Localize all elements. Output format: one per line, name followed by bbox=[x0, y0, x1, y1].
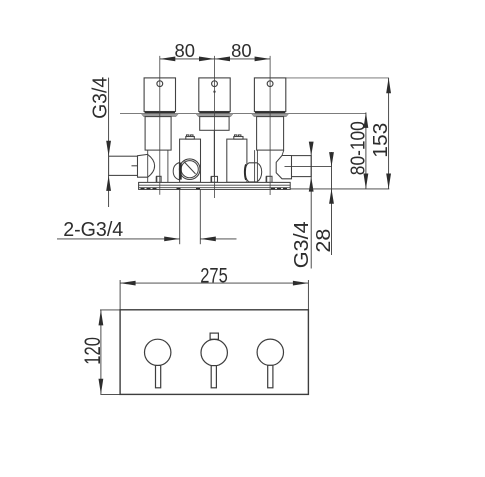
dimension 120 bbox=[100, 310, 120, 395]
cartridge 3 lower body bbox=[257, 117, 284, 151]
handle 1 bbox=[145, 339, 171, 388]
plate tick marks bbox=[141, 188, 288, 190]
dimension G3/4 right bbox=[310, 143, 312, 269]
dimension 2-G3/4 bbox=[57, 238, 237, 240]
mounting plate bbox=[139, 182, 291, 189]
front plate rectangle bbox=[120, 310, 308, 395]
left valve body bbox=[138, 154, 155, 177]
handle 2 bbox=[201, 333, 227, 388]
dimension 275 bbox=[120, 280, 308, 310]
svg-text:28: 28 bbox=[312, 229, 335, 253]
right valve body bbox=[276, 156, 291, 179]
svg-text:2-G3/4: 2-G3/4 bbox=[63, 218, 123, 241]
dimension 153 bbox=[388, 78, 390, 189]
big valve circle bbox=[179, 159, 200, 180]
svg-text:80-100: 80-100 bbox=[346, 121, 369, 175]
foot 1 bbox=[157, 176, 162, 182]
cartridge 1 lower column bbox=[148, 150, 168, 182]
right inlet pipe bbox=[285, 156, 332, 177]
handle 3 bbox=[257, 339, 283, 388]
plate bottom extension line bbox=[290, 188, 389, 190]
dimension 28 bbox=[331, 152, 333, 255]
mixer block left bbox=[180, 135, 201, 182]
cartridge 2 upper body bbox=[199, 78, 230, 112]
flange cartridge 3 bbox=[251, 112, 289, 117]
mixer block right bbox=[227, 135, 247, 182]
cartridge 3 lower column bbox=[255, 150, 284, 182]
svg-text:80: 80 bbox=[175, 41, 196, 61]
bottom outlet extension lines bbox=[180, 189, 201, 244]
svg-text:80: 80 bbox=[231, 41, 252, 61]
foot 3 bbox=[266, 176, 272, 182]
center line cartridge 3 bbox=[269, 56, 271, 195]
svg-text:275: 275 bbox=[200, 263, 228, 287]
cartridge top extension line bbox=[285, 77, 389, 79]
clamp dark bar bbox=[179, 163, 181, 180]
svg-text:G3/4: G3/4 bbox=[88, 77, 111, 119]
dimension 80-100 bbox=[365, 112, 367, 189]
wall line bbox=[120, 113, 366, 115]
cartridge 1 lower body bbox=[145, 117, 171, 151]
mid foot bbox=[211, 176, 217, 182]
flange cartridge 1 bbox=[141, 112, 179, 117]
left clamp clip bbox=[173, 163, 179, 180]
right ball joint bbox=[245, 163, 262, 182]
dimension G3/4 left bbox=[108, 78, 110, 207]
center line cartridge 2 bbox=[214, 56, 216, 198]
svg-text:G3/4: G3/4 bbox=[290, 221, 313, 268]
center line cartridge 1 bbox=[159, 56, 161, 195]
cartridge 2 lower body bbox=[200, 117, 229, 131]
svg-text:120: 120 bbox=[80, 337, 105, 365]
dimension 80 (first) bbox=[160, 58, 270, 60]
svg-text:153: 153 bbox=[369, 123, 392, 158]
cartridge 3 upper body bbox=[254, 78, 285, 112]
cartridge 1 upper body bbox=[144, 78, 175, 112]
cartridge 2 neck bbox=[213, 130, 215, 176]
flange cartridge 2 bbox=[196, 112, 234, 117]
left inlet pipe bbox=[109, 156, 146, 175]
